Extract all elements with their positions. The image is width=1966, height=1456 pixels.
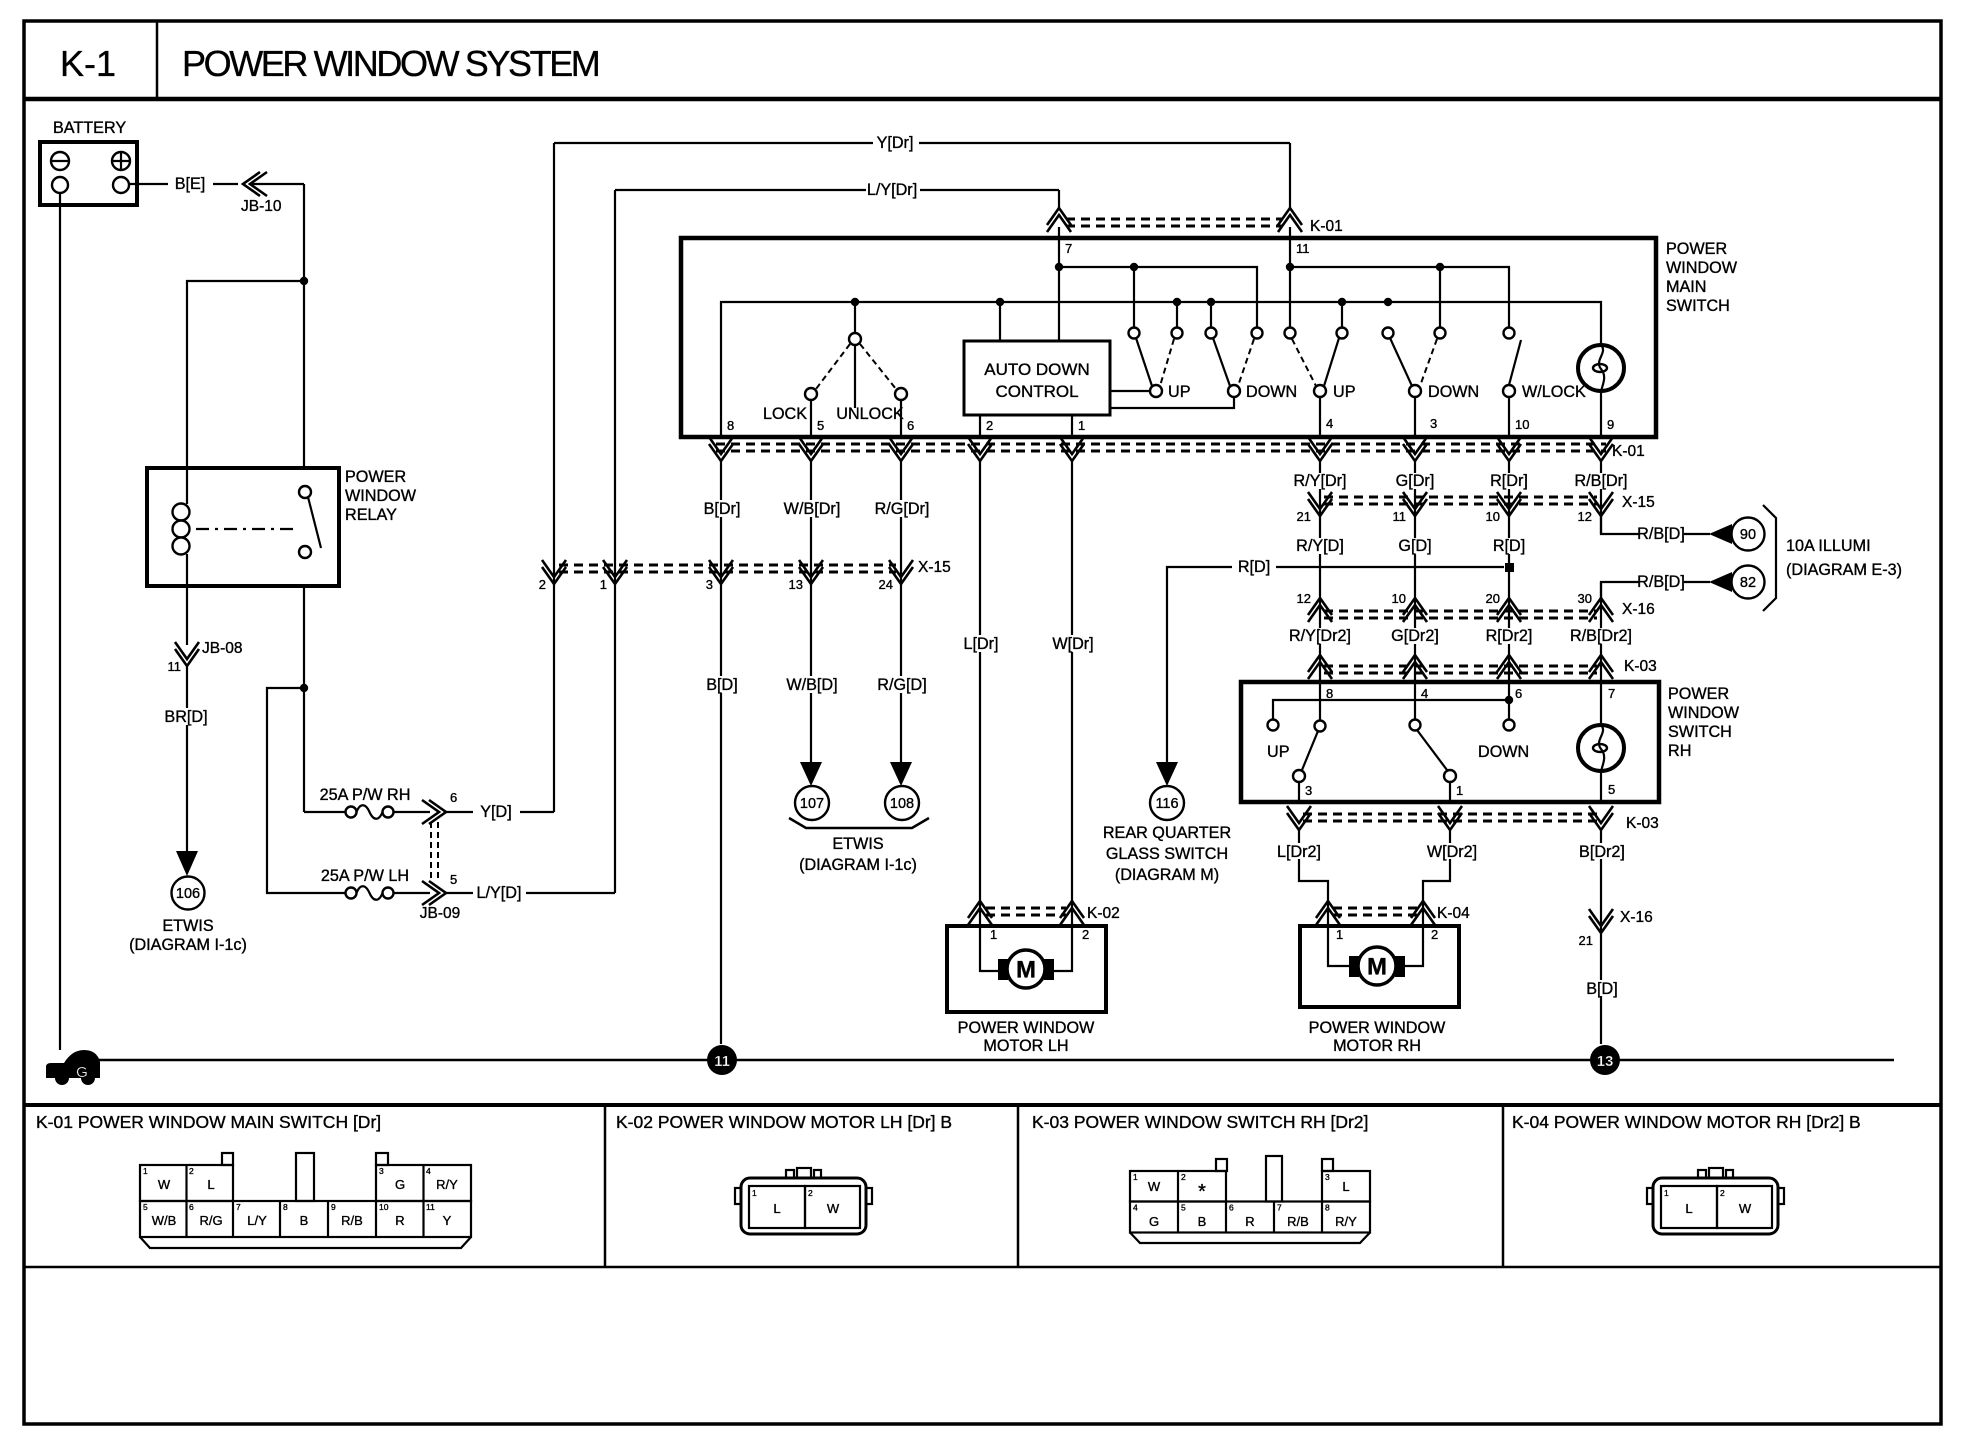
wire B[Dr]/B[D] pin 8 to ground [720, 461, 722, 1044]
svg-text:L/Y[D]: L/Y[D] [477, 884, 522, 902]
svg-text:R/B: R/B [341, 1213, 363, 1228]
wire R/B[D] to 90 [1601, 516, 1640, 534]
arrow to ETWIS 107 [800, 762, 822, 786]
connector drawing K-02 [735, 1168, 872, 1234]
svg-text:11: 11 [168, 659, 182, 674]
svg-text:UNLOCK: UNLOCK [836, 405, 904, 423]
svg-text:2: 2 [539, 577, 546, 592]
svg-text:11: 11 [1296, 241, 1310, 256]
connector X-16 pins 12 10 20 30 [1324, 610, 1597, 613]
svg-text:REAR QUARTER: REAR QUARTER [1103, 824, 1231, 842]
wire battery negative to ground G [59, 193, 61, 1050]
wire pin 3 RH [1298, 782, 1300, 802]
svg-text:ETWIS: ETWIS [832, 835, 883, 853]
svg-text:DOWN: DOWN [1428, 383, 1479, 401]
svg-text:108: 108 [890, 796, 914, 812]
wire fuse RH to JB-09 pin 6 [394, 811, 430, 813]
node junction up1a [1055, 263, 1063, 271]
svg-text:82: 82 [1740, 575, 1756, 591]
svg-text:K-1: K-1 [60, 43, 116, 84]
switch unlock contact [860, 344, 896, 389]
motor M1 POWER WINDOW MOTOR LH box [947, 926, 1106, 1012]
svg-text:6: 6 [1515, 686, 1522, 701]
wire R pin 10 down [1508, 461, 1510, 682]
svg-text:LOCK: LOCK [763, 405, 807, 423]
node 90 [1732, 518, 1765, 551]
node fuse feed junction [300, 684, 308, 692]
svg-text:RH: RH [1668, 742, 1691, 760]
svg-text:B[Dr]: B[Dr] [704, 500, 741, 518]
connector K-02 [986, 907, 1066, 910]
svg-text:W[Dr]: W[Dr] [1052, 635, 1093, 653]
connector JB-10 [243, 172, 267, 196]
svg-text:8: 8 [1325, 1203, 1330, 1213]
connector drawing K-01 [140, 1153, 471, 1248]
svg-text:W: W [827, 1201, 840, 1216]
svg-text:11: 11 [426, 1202, 435, 1212]
svg-text:Y[Dr]: Y[Dr] [877, 134, 914, 152]
ground G car symbol [46, 1050, 100, 1085]
svg-text:L: L [773, 1201, 780, 1216]
wire pin11 into switch [1289, 227, 1291, 328]
svg-text:R/Y[Dr2]: R/Y[Dr2] [1289, 627, 1351, 645]
wire ADC to DOWN1 common [1110, 397, 1234, 408]
wire L[Dr] pin 2 to motor [979, 461, 981, 926]
arrow to 82 [1709, 572, 1732, 592]
svg-text:1: 1 [1336, 927, 1343, 942]
motor LH symbol [998, 950, 1054, 988]
lamp ILL RH [1600, 682, 1602, 725]
svg-text:K-01: K-01 [1612, 443, 1645, 460]
connector K-01 pin 7 entry [1047, 208, 1071, 232]
svg-text:10: 10 [1486, 509, 1500, 524]
switch lock contact [816, 344, 850, 389]
svg-text:106: 106 [176, 886, 200, 902]
svg-text:107: 107 [800, 796, 824, 812]
svg-text:K-01 POWER WINDOW MAIN SWITCH: K-01 POWER WINDOW MAIN SWITCH [Dr] [36, 1112, 381, 1132]
wire JB-10 to corner [252, 183, 304, 185]
svg-text:2: 2 [1720, 1188, 1725, 1198]
svg-text:K-02 POWER WINDOW MOTOR LH [Dr: K-02 POWER WINDOW MOTOR LH [Dr] B [616, 1112, 952, 1132]
svg-text:R/Y: R/Y [436, 1177, 458, 1192]
connector X-15 pin 1 [603, 560, 627, 584]
svg-text:POWER: POWER [345, 468, 406, 486]
svg-text:13: 13 [1597, 1053, 1614, 1070]
svg-text:11: 11 [714, 1053, 730, 1070]
wire upper link from pin 7 [1059, 267, 1257, 328]
svg-text:G[Dr2]: G[Dr2] [1391, 627, 1439, 645]
svg-text:R/G: R/G [199, 1213, 222, 1228]
lamp ILL illumination [1578, 345, 1624, 391]
svg-text:WINDOW: WINDOW [1666, 259, 1738, 277]
svg-text:10: 10 [1515, 417, 1529, 432]
svg-text:K-03 POWER WINDOW SWITCH RH [D: K-03 POWER WINDOW SWITCH RH [Dr2] [1032, 1112, 1368, 1132]
wire junction to lower fuse [267, 688, 345, 893]
node bus junction down2a [1384, 298, 1392, 306]
wire relay coil to JB-08 [186, 586, 188, 645]
relay actuator dashed link [196, 528, 296, 530]
svg-text:RELAY: RELAY [345, 506, 397, 524]
svg-text:13: 13 [789, 577, 803, 592]
svg-text:X-15: X-15 [1622, 494, 1655, 511]
svg-text:R/Y[Dr]: R/Y[Dr] [1293, 472, 1346, 490]
svg-text:W/B: W/B [152, 1213, 177, 1228]
svg-text:30: 30 [1578, 591, 1592, 606]
svg-text:2: 2 [189, 1166, 194, 1176]
title bar bottom rule [24, 97, 1941, 102]
node 82 [1732, 566, 1765, 599]
wire pin 1 RH [1449, 782, 1451, 802]
connector X-15 pin 2 [542, 560, 566, 584]
svg-text:WINDOW: WINDOW [1668, 704, 1740, 722]
wire pin7 into switch [1058, 227, 1060, 341]
bracket 10A ILLUMI [1763, 505, 1776, 611]
wire Y[D] riser to Y[Dr] [553, 143, 555, 812]
svg-text:JB-10: JB-10 [241, 198, 282, 215]
svg-text:R/B: R/B [1287, 1214, 1309, 1229]
connector K-03 upper row [1324, 665, 1597, 668]
svg-text:X-16: X-16 [1620, 909, 1653, 926]
svg-text:R/G[Dr]: R/G[Dr] [875, 500, 930, 518]
svg-text:R[D]: R[D] [1238, 558, 1270, 576]
connector JB-09 dashed link [430, 822, 432, 879]
wire Y[Dr] top run [554, 142, 873, 144]
wire junction to relay coil [187, 281, 304, 468]
battery positive terminal [112, 152, 130, 170]
wire W[Dr] pin 1 to motor [1071, 461, 1073, 926]
svg-text:1: 1 [1456, 783, 1463, 798]
node 108 [885, 786, 919, 820]
connector K-03 lower row [1303, 813, 1597, 816]
svg-text:ETWIS: ETWIS [162, 917, 213, 935]
svg-text:JB-08: JB-08 [202, 640, 243, 657]
svg-text:B[D]: B[D] [1586, 980, 1617, 998]
wire W/B[Dr] pin 5 [810, 461, 812, 762]
svg-text:R/Y[D]: R/Y[D] [1296, 537, 1344, 555]
svg-text:G[Dr]: G[Dr] [1396, 472, 1435, 490]
svg-text:*: * [1198, 1181, 1206, 1203]
brace under 107 108 [789, 818, 929, 828]
svg-text:4: 4 [1421, 686, 1428, 701]
svg-text:7: 7 [236, 1202, 241, 1212]
wire ADC pin 2 [979, 415, 981, 437]
svg-text:R/B[Dr]: R/B[Dr] [1574, 472, 1627, 490]
svg-text:R: R [395, 1213, 404, 1228]
svg-text:12: 12 [1297, 591, 1311, 606]
svg-text:3: 3 [1430, 416, 1437, 431]
svg-text:R[Dr2]: R[Dr2] [1486, 627, 1533, 645]
node bus junction up2b [1338, 298, 1346, 306]
connector K-01 lower row [716, 443, 1606, 446]
wire R/B[D] to 82 [1601, 582, 1640, 598]
svg-text:B[E]: B[E] [175, 175, 206, 193]
wire motor LH pin2 [1052, 926, 1072, 971]
motor M2 POWER WINDOW MOTOR RH box [1300, 926, 1459, 1007]
svg-text:K-02: K-02 [1087, 905, 1120, 922]
fuse 25A P/W RH [304, 811, 345, 813]
node 106 ETWIS [172, 877, 205, 910]
wire pin 3 [1414, 397, 1416, 437]
switch lock/unlock common [854, 302, 856, 333]
battery negative terminal [51, 152, 69, 170]
wire R/B pin 9 down [1600, 461, 1602, 534]
svg-text:L: L [207, 1177, 214, 1192]
svg-text:5: 5 [1181, 1203, 1186, 1213]
svg-text:6: 6 [450, 790, 457, 805]
svg-text:5: 5 [1608, 782, 1615, 797]
node bus junction lock [851, 298, 859, 306]
connector X-15 pins 21 11 10 12 [1324, 496, 1597, 499]
svg-text:5: 5 [450, 872, 457, 887]
svg-text:24: 24 [879, 577, 893, 592]
connector K-01 pin 11 entry [1278, 208, 1302, 232]
svg-text:1: 1 [752, 1188, 757, 1198]
svg-text:X-16: X-16 [1622, 601, 1655, 618]
wire B[Dr2]/B[D] to ground [1600, 830, 1602, 1044]
svg-text:2: 2 [808, 1188, 813, 1198]
svg-text:7: 7 [1608, 686, 1615, 701]
svg-text:K-03: K-03 [1624, 658, 1657, 675]
svg-text:10A ILLUMI: 10A ILLUMI [1786, 537, 1871, 555]
svg-text:X-15: X-15 [918, 559, 951, 576]
svg-text:20: 20 [1486, 591, 1500, 606]
svg-text:K-03: K-03 [1626, 815, 1659, 832]
svg-text:2: 2 [1431, 927, 1438, 942]
svg-text:9: 9 [1607, 417, 1614, 432]
wire pin 4 [1319, 397, 1321, 437]
wire battery positive B[E] [129, 183, 168, 185]
svg-text:10: 10 [379, 1202, 389, 1212]
svg-text:W/B[D]: W/B[D] [786, 676, 837, 694]
svg-text:9: 9 [331, 1202, 336, 1212]
switch DOWN RH contacts [1414, 682, 1416, 720]
svg-text:12: 12 [1578, 509, 1592, 524]
relay contact [299, 486, 311, 498]
wire L/Y[Dr] top run [615, 189, 866, 191]
svg-text:4: 4 [1133, 1203, 1138, 1213]
svg-text:UP: UP [1267, 743, 1290, 761]
svg-text:B: B [1198, 1214, 1207, 1229]
svg-text:3: 3 [1305, 783, 1312, 798]
svg-text:UP: UP [1168, 383, 1191, 401]
svg-text:WINDOW: WINDOW [345, 487, 417, 505]
svg-text:(DIAGRAM I-1c): (DIAGRAM I-1c) [129, 936, 247, 954]
svg-text:R[Dr]: R[Dr] [1490, 472, 1528, 490]
node bus junction up1b [1173, 298, 1181, 306]
connector K-01 top dashed link [1066, 218, 1283, 221]
svg-text:3: 3 [1325, 1172, 1330, 1182]
wire BR[D] to ETWIS [186, 666, 188, 851]
node junction pin11 [1286, 263, 1294, 271]
svg-text:6: 6 [907, 418, 914, 433]
svg-text:5: 5 [143, 1202, 148, 1212]
svg-text:POWER: POWER [1668, 685, 1729, 703]
switch UP driver contacts [1129, 328, 1140, 339]
switch W/LOCK contact [1504, 328, 1515, 339]
svg-text:POWER WINDOW SYSTEM: POWER WINDOW SYSTEM [182, 43, 599, 84]
svg-text:Y: Y [443, 1213, 452, 1228]
svg-text:2: 2 [986, 418, 993, 433]
node 116 REAR QUARTER GLASS SWITCH [1150, 786, 1184, 820]
connector drawing K-04 [1647, 1168, 1784, 1234]
svg-text:SWITCH: SWITCH [1666, 297, 1730, 315]
wire pin 9 [1600, 391, 1602, 437]
svg-text:6: 6 [189, 1202, 194, 1212]
wire upper link from pin 11 [1290, 267, 1509, 328]
svg-text:1: 1 [1133, 1172, 1138, 1182]
wire motor RH pin1 [1328, 926, 1351, 966]
svg-text:B[Dr2]: B[Dr2] [1579, 843, 1625, 861]
wire fuse LH to JB-09 pin 5 [394, 892, 430, 894]
relay K1 POWER WINDOW RELAY box [147, 468, 339, 586]
svg-text:R: R [1245, 1214, 1254, 1229]
connector drawing K-03 [1130, 1156, 1370, 1243]
motor RH symbol [1349, 947, 1405, 985]
svg-text:8: 8 [727, 418, 734, 433]
wire junction to relay contact [303, 281, 305, 468]
wire pin 10 [1508, 397, 1510, 437]
svg-text:R/B[D]: R/B[D] [1637, 573, 1685, 591]
relay coil [186, 468, 188, 504]
svg-text:W/B[Dr]: W/B[Dr] [784, 500, 841, 518]
svg-text:1: 1 [600, 577, 607, 592]
svg-text:MAIN: MAIN [1666, 278, 1706, 296]
switch UP RH contacts [1319, 682, 1321, 721]
svg-text:GLASS SWITCH: GLASS SWITCH [1106, 845, 1228, 863]
arrow to 116 [1156, 762, 1178, 786]
node R[D] junction square [1505, 563, 1514, 572]
switch DOWN passenger contacts [1383, 328, 1394, 339]
wire W[Dr2] [1423, 830, 1450, 926]
switch DOWN driver contacts [1206, 328, 1217, 339]
connector JB-08 pin 11 [175, 642, 199, 666]
node 11 ground joint [707, 1045, 737, 1075]
svg-text:SWITCH: SWITCH [1668, 723, 1732, 741]
svg-text:POWER WINDOW: POWER WINDOW [958, 1019, 1095, 1037]
svg-text:K-01: K-01 [1310, 218, 1343, 235]
svg-text:AUTO DOWN: AUTO DOWN [984, 360, 1089, 379]
wire Y[D] [446, 811, 473, 813]
wire motor LH pin1 [980, 926, 1000, 971]
svg-text:W[Dr2]: W[Dr2] [1427, 843, 1477, 861]
svg-text:L[Dr2]: L[Dr2] [1277, 843, 1321, 861]
svg-text:7: 7 [1065, 241, 1072, 256]
wire R/Y pin 4 down [1319, 461, 1321, 682]
wire L/Y[D] [446, 892, 473, 894]
wire ADC to UP1 common [1110, 390, 1150, 392]
wire bus to ADC [999, 302, 1001, 341]
svg-text:1: 1 [990, 927, 997, 942]
connector table frame [24, 1103, 1941, 1107]
svg-text:G: G [395, 1177, 405, 1192]
wire relay contact to fuse junction [303, 586, 305, 812]
svg-text:25A P/W RH: 25A P/W RH [320, 786, 411, 804]
svg-text:(DIAGRAM E-3): (DIAGRAM E-3) [1786, 561, 1902, 579]
svg-text:K-04: K-04 [1437, 905, 1470, 922]
node 107 [795, 786, 829, 820]
svg-text:G: G [1149, 1214, 1159, 1229]
svg-text:B[D]: B[D] [706, 676, 737, 694]
svg-text:UP: UP [1333, 383, 1356, 401]
wire G pin 3 down [1414, 461, 1416, 682]
svg-text:R/B[D]: R/B[D] [1637, 525, 1685, 543]
wire B[E] to JB-10 [213, 183, 238, 185]
svg-text:L: L [1342, 1179, 1349, 1194]
svg-text:BR[D]: BR[D] [164, 708, 207, 726]
svg-text:90: 90 [1740, 527, 1756, 543]
arrow to ETWIS [176, 851, 198, 876]
svg-text:1: 1 [1078, 418, 1085, 433]
svg-text:L/Y[Dr]: L/Y[Dr] [867, 181, 917, 199]
svg-text:1: 1 [1664, 1188, 1669, 1198]
svg-text:W: W [1739, 1201, 1752, 1216]
wire internal supply bus [721, 302, 1601, 437]
svg-text:L/Y: L/Y [247, 1213, 267, 1228]
node bus junction down1a [1207, 298, 1215, 306]
svg-text:L[Dr]: L[Dr] [963, 635, 998, 653]
svg-text:6: 6 [1229, 1203, 1234, 1213]
wire motor RH pin2 [1403, 926, 1423, 966]
svg-text:R/B[Dr2]: R/B[Dr2] [1570, 627, 1632, 645]
connector X-16 pin 21 [1589, 909, 1613, 933]
ground bus [96, 1059, 1894, 1062]
wire L[Dr2] [1299, 830, 1328, 926]
svg-text:DOWN: DOWN [1246, 383, 1297, 401]
svg-text:R/G[D]: R/G[D] [877, 676, 926, 694]
switch SW2 POWER WINDOW SWITCH RH box [1241, 682, 1659, 802]
battery negative post [52, 177, 68, 193]
svg-text:MOTOR LH: MOTOR LH [983, 1037, 1068, 1055]
svg-text:25A P/W LH: 25A P/W LH [321, 867, 409, 885]
svg-text:2: 2 [1181, 1172, 1186, 1182]
svg-text:R/Y: R/Y [1335, 1214, 1357, 1229]
svg-text:L: L [1685, 1201, 1692, 1216]
svg-text:11: 11 [1393, 509, 1407, 524]
wire R[D] tap [1167, 567, 1504, 762]
node junction pin6 [1508, 682, 1510, 700]
svg-text:10: 10 [1392, 591, 1406, 606]
connector K-04 [1333, 907, 1418, 910]
svg-text:B: B [300, 1213, 309, 1228]
battery B1 [40, 142, 137, 205]
svg-text:21: 21 [1579, 933, 1593, 948]
switch SW1 POWER WINDOW MAIN SWITCH box [681, 238, 1656, 437]
wire R/G[Dr] pin 6 [900, 461, 902, 762]
svg-text:BATTERY: BATTERY [53, 119, 126, 137]
svg-text:21: 21 [1297, 509, 1311, 524]
svg-text:7: 7 [1277, 1203, 1282, 1213]
title bar divider [156, 21, 159, 99]
svg-text:8: 8 [1326, 686, 1333, 701]
node bus junction adc [996, 298, 1004, 306]
arrow to 90 [1709, 524, 1732, 544]
svg-text:5: 5 [817, 418, 824, 433]
wire ADC pin 1 [1071, 415, 1073, 437]
svg-text:MOTOR RH: MOTOR RH [1333, 1037, 1421, 1055]
svg-text:G: G [76, 1064, 88, 1081]
svg-text:POWER: POWER [1666, 240, 1727, 258]
svg-text:116: 116 [1155, 796, 1178, 812]
svg-text:G[D]: G[D] [1398, 537, 1431, 555]
svg-text:Y[D]: Y[D] [480, 803, 511, 821]
svg-text:R[D]: R[D] [1493, 537, 1525, 555]
node battery feed junction [300, 277, 308, 285]
svg-text:DOWN: DOWN [1478, 743, 1529, 761]
wire internal link RH [1273, 700, 1509, 719]
svg-text:W/LOCK: W/LOCK [1522, 383, 1586, 401]
svg-text:1: 1 [143, 1166, 148, 1176]
svg-text:4: 4 [1326, 416, 1333, 431]
